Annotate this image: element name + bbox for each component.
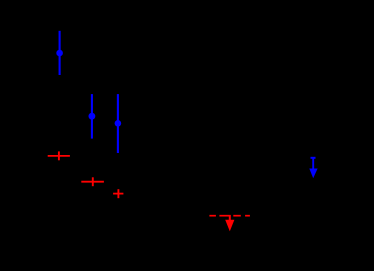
red plus marker 1 <box>58 151 60 160</box>
red horizontal error bar 1 (wire) <box>48 155 70 157</box>
blue down arrow cap <box>311 157 316 159</box>
red down arrow (upper limit) <box>229 215 231 222</box>
blue marker point 2 <box>89 113 96 120</box>
red plus marker 3 <box>117 189 119 198</box>
blue marker point 1 <box>56 50 63 57</box>
red horizontal error bar 3 (wire) <box>113 193 123 195</box>
blue marker point 3 <box>115 120 122 127</box>
blue down arrow head <box>309 169 317 179</box>
blue error bar 3 (wire) <box>117 94 119 153</box>
blue error bar 2 (wire) <box>91 94 93 139</box>
red dashed upper-limit line <box>209 215 250 217</box>
red plus marker 2 <box>92 177 94 186</box>
blue error bar 1 (wire) <box>59 31 61 75</box>
red horizontal error bar 2 (wire) <box>81 181 104 183</box>
blue down arrow shaft (wire) <box>312 158 314 171</box>
